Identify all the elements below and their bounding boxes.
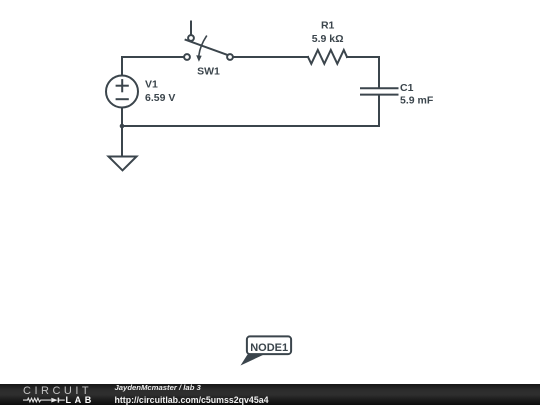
junction on bottom rail [120,124,125,129]
label 5.9 mF [400,95,434,107]
svg-text:6.59 V: 6.59 V [145,92,175,104]
svg-text:SW1: SW1 [197,65,220,77]
label R1 [321,20,335,32]
svg-text:NODE1: NODE1 [250,342,288,354]
wire R1 to C1 top plate [347,57,379,87]
voltage source V1 [106,76,138,108]
svg-text:R1: R1 [321,20,335,32]
footer url text [115,395,269,405]
resistor R1 [308,50,347,64]
svg-text:5.9 mF: 5.9 mF [400,95,434,107]
switch SW1 [184,22,233,62]
footer logo LAB [66,395,95,405]
footer logo CIRCUIT [23,385,92,397]
svg-text:C1: C1 [400,82,414,94]
footer bar [0,384,540,405]
node flag NODE1 box [247,336,291,354]
label SW1 [197,65,220,77]
footer title text [115,383,201,392]
capacitor C1 [361,88,398,94]
wire switch right throw to R1 [233,56,308,58]
bottom rail wire [122,125,379,127]
label V1 [145,78,158,90]
wire V1 plus terminal to switch left pole [122,57,184,76]
footer logo waveform [0,384,100,405]
label C1 [400,82,414,94]
wire C1 bottom plate to bottom rail [378,96,380,126]
svg-text:5.9 kΩ: 5.9 kΩ [312,33,344,45]
ground [109,157,137,171]
node flag NODE1 tail [241,355,265,366]
label NODE1 [250,342,288,354]
label 6.59 V [145,92,175,104]
wire V1 minus terminal to ground [121,108,123,157]
label 5.9 kOhm [312,33,344,45]
svg-text:V1: V1 [145,78,158,90]
